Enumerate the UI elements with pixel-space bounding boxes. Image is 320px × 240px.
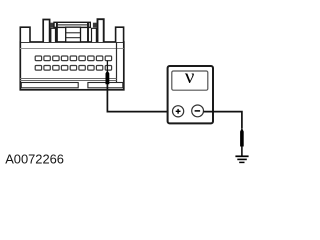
connector inner top line xyxy=(20,48,124,50)
connector right tower xyxy=(98,19,104,42)
svg-text:ν: ν xyxy=(185,64,195,88)
wire from voltmeter negative to ground xyxy=(204,112,242,129)
latch center box xyxy=(66,27,81,42)
connector bottom slot right xyxy=(88,83,123,88)
latch right nub xyxy=(93,23,97,28)
connector right tab xyxy=(116,27,124,42)
connector left tower xyxy=(43,20,49,43)
test probe at connector pin xyxy=(106,61,110,85)
connector bottom slot left xyxy=(21,83,78,88)
svg-text:A0072266: A0072266 xyxy=(5,152,64,167)
pin row 1 xyxy=(35,56,111,61)
latch right arm xyxy=(92,28,97,42)
voltmeter display xyxy=(172,71,208,90)
pin row 2 xyxy=(35,66,111,71)
ground symbol xyxy=(235,147,248,163)
connector lower band line B xyxy=(20,80,117,82)
latch left arm xyxy=(51,28,56,42)
latch cap left wall xyxy=(56,23,58,42)
ground probe xyxy=(240,128,244,147)
voltmeter body xyxy=(168,66,213,123)
voltmeter positive terminal xyxy=(173,106,184,117)
latch left nub xyxy=(51,23,55,28)
connector inner right wall xyxy=(116,42,118,83)
latch cap right wall xyxy=(87,23,89,42)
latch cap xyxy=(54,22,90,27)
connector body xyxy=(20,42,124,90)
wire from probe to voltmeter positive xyxy=(107,84,172,112)
voltmeter negative terminal xyxy=(192,105,204,117)
connector lower band line A xyxy=(20,78,117,80)
connector left tab xyxy=(20,27,30,42)
